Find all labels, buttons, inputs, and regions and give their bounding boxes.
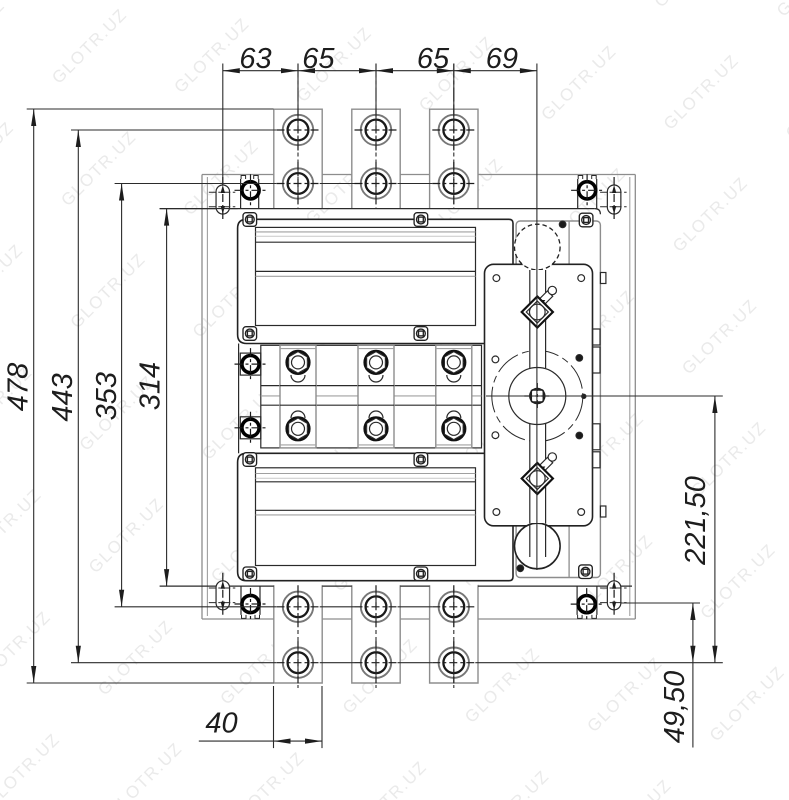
top terminal bar 1 (274, 109, 322, 208)
mounting slot bottom-left (209, 573, 237, 618)
top terminal bar 3 (430, 109, 478, 208)
housing corner screw (414, 453, 428, 467)
pole clip upper (447, 375, 461, 382)
top terminal screw lower (355, 162, 398, 205)
lower arc-chute housing (238, 453, 513, 581)
upper arc-chute housing (238, 213, 513, 344)
top terminal screw upper (432, 109, 475, 152)
bottom terminal screw upper (355, 585, 398, 628)
svg-text:443: 443 (47, 373, 79, 421)
svg-text:314: 314 (134, 362, 166, 410)
left extension lines (27, 109, 723, 683)
svg-text:63: 63 (239, 43, 271, 75)
lower clamp diamond (522, 453, 557, 494)
bottom terminal screw upper (432, 585, 475, 628)
bottom terminal screw lower (355, 641, 398, 684)
mount screw mid-left upper (235, 348, 267, 380)
right extension lines (621, 602, 700, 604)
dimension line 49,50 (690, 603, 695, 748)
mount screw bottom-left (235, 586, 267, 620)
drive link bar (530, 270, 546, 523)
pole hex screw lower (443, 418, 465, 440)
dimension line 443 (76, 130, 81, 663)
bottom roller (515, 523, 561, 569)
main shaft hub outer circle (492, 351, 583, 442)
top dimension line (223, 68, 537, 73)
housing corner screw (414, 327, 428, 341)
body bottom edge line (160, 585, 632, 587)
bottom terminal bar 2 (352, 585, 400, 683)
pole hex screw upper (365, 351, 387, 373)
top terminal screw upper (355, 109, 398, 152)
plate holes (492, 275, 585, 516)
mechanism vertical centerline (536, 64, 538, 571)
mounting slot top-right (600, 177, 628, 222)
middle pole block 3 (436, 345, 472, 448)
pole hex screw upper (287, 351, 309, 373)
upper clamp diamond (522, 286, 557, 327)
housing corner screw (579, 213, 593, 227)
svg-text:353: 353 (91, 372, 123, 420)
svg-text:478: 478 (3, 363, 35, 411)
middle section body (261, 345, 482, 448)
top terminal screw lower (432, 162, 475, 205)
pole hex screw upper (443, 351, 465, 373)
pole clip lower (369, 411, 383, 418)
bottom extension lines (274, 686, 323, 748)
dimension line 314 (164, 209, 169, 586)
dimension line 221,50 (712, 396, 717, 663)
svg-text:40: 40 (205, 708, 237, 740)
svg-text:65: 65 (417, 43, 450, 75)
bottom terminal screw upper (277, 585, 320, 628)
mount screw top-right (571, 174, 603, 208)
svg-text:49,50: 49,50 (659, 671, 691, 744)
mounting plate frame (202, 175, 635, 620)
terminal bar centerline (453, 64, 455, 689)
mount screw top-left (235, 174, 267, 208)
svg-text:221,50: 221,50 (680, 476, 712, 566)
top terminal screw upper (277, 109, 320, 152)
top terminal screw lower (277, 162, 320, 205)
mounting slot top-left (209, 177, 237, 222)
housing corner screw (243, 453, 257, 467)
mount screw mid-left lower (235, 412, 267, 444)
bottom terminal screw lower (277, 641, 320, 684)
housing corner screw (243, 213, 257, 227)
bottom terminal bar 3 (430, 585, 478, 683)
dimension line 40 (199, 739, 322, 744)
top roller (515, 224, 561, 270)
svg-text:65: 65 (302, 43, 335, 75)
terminal bar centerline (297, 64, 299, 689)
dimension line 353 (119, 184, 124, 607)
body top edge line (160, 209, 601, 215)
terminal bar centerline (375, 64, 377, 689)
hub center nut (524, 383, 550, 409)
pole clip lower (447, 411, 461, 418)
pole clip lower (291, 411, 305, 418)
bottom terminal screw lower (432, 641, 475, 684)
housing corner screw (414, 567, 428, 581)
plate side tabs (593, 273, 606, 518)
dimension line 478 (31, 109, 36, 683)
housing corner screw (243, 567, 257, 581)
housing corner screw (579, 565, 593, 579)
mounting slot bottom-right (600, 573, 628, 618)
main shaft hub middle circle (509, 368, 566, 425)
housing corner screw (243, 327, 257, 341)
plate pins (517, 221, 586, 572)
bottom terminal bar 1 (274, 585, 322, 683)
pole hex screw lower (287, 418, 309, 440)
mount screw bottom-right (571, 586, 603, 620)
pole hex screw lower (365, 418, 387, 440)
mechanism plate (485, 264, 593, 526)
pole clip upper (369, 375, 383, 382)
crossbar lines (261, 386, 482, 406)
housing corner screw (414, 213, 428, 227)
middle pole block 1 (280, 345, 316, 448)
pole clip upper (291, 375, 305, 382)
mechanism horizontal centerline (486, 395, 723, 397)
mechanism housing column (516, 221, 600, 578)
top dimension extension lines (223, 64, 454, 185)
top terminal bar 2 (352, 109, 400, 208)
left guide strip (238, 344, 240, 454)
svg-text:69: 69 (486, 43, 518, 75)
middle pole block 2 (358, 345, 394, 448)
